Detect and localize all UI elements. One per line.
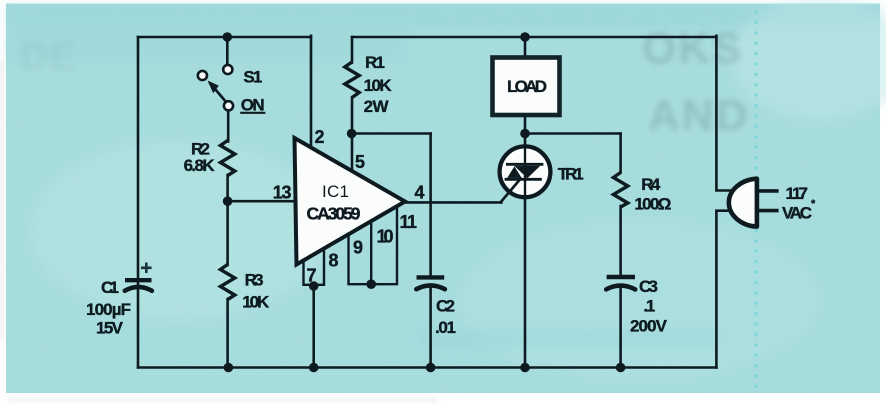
svg-text:9: 9 — [353, 238, 363, 258]
wire pin 13 horizontal — [228, 200, 296, 203]
svg-text:R3: R3 — [245, 271, 264, 290]
wire load bottom to triac — [524, 115, 527, 149]
resistor R2 — [220, 141, 234, 176]
junction node: bus / triac — [520, 363, 530, 373]
svg-text:LOAD: LOAD — [507, 77, 547, 96]
svg-text:5: 5 — [355, 152, 365, 172]
wire load top stub — [524, 37, 527, 58]
resistor R3 — [220, 265, 234, 300]
svg-text:CA3059: CA3059 — [307, 204, 361, 224]
op-amp U1 IC1 CA3059 body — [295, 138, 406, 265]
wire pin 2 vertical drop — [310, 36, 313, 147]
junction node: bus / R3 — [224, 363, 234, 373]
wire R3 to bus — [226, 299, 229, 368]
svg-text:TR1: TR1 — [558, 165, 584, 184]
svg-text:4: 4 — [415, 183, 425, 203]
LOAD box — [493, 58, 560, 116]
wire pin 7-8 drop to bus — [312, 286, 315, 368]
svg-text:8: 8 — [329, 251, 339, 271]
svg-text:2W: 2W — [364, 97, 390, 116]
junction node: R1 bottom branch — [347, 129, 357, 139]
svg-text:7: 7 — [799, 184, 808, 203]
resistor R4 — [613, 173, 627, 208]
svg-text:6.8K: 6.8K — [184, 156, 216, 175]
junction node: top rail / S1 — [223, 32, 233, 42]
svg-text:.1: .1 — [643, 297, 655, 316]
svg-text:1: 1 — [407, 212, 417, 232]
wire C2 column upper — [429, 134, 432, 277]
svg-text:C1: C1 — [101, 278, 119, 297]
svg-text:S1: S1 — [243, 68, 262, 87]
wire pin 4 output — [403, 201, 502, 204]
svg-text:OKS: OKS — [642, 24, 743, 73]
wire top-right horizontal rail — [352, 36, 716, 39]
wire right vertical upper + stub to plug — [716, 36, 733, 191]
svg-text:100Ω: 100Ω — [634, 195, 671, 214]
transistor Q1 triac TR1 — [500, 146, 551, 197]
svg-text:VAC: VAC — [782, 204, 812, 223]
wire triac gate diagonal — [501, 178, 522, 203]
svg-text:AND: AND — [648, 91, 749, 140]
wire C2 column lower to bus — [429, 289, 432, 368]
wire C3 lower to bus — [619, 289, 622, 368]
ghost show-through headline text — [20, 24, 749, 140]
junction node: LOAD bottom branch — [520, 129, 530, 139]
svg-text:ON: ON — [241, 96, 265, 115]
margin scan smudges — [1, 60, 438, 401]
wire R4 bottom to C3 — [619, 206, 622, 276]
svg-text:2: 2 — [315, 127, 325, 147]
pin 9-10-11 bracket — [349, 206, 398, 284]
svg-text:10K: 10K — [364, 76, 393, 95]
wire left vertical rail — [137, 37, 140, 368]
svg-text:C2: C2 — [436, 297, 455, 316]
wire triac anode bottom to bus — [524, 196, 527, 368]
svg-text:R4: R4 — [641, 175, 661, 194]
wire branch triac-node to R4 column — [525, 132, 621, 135]
wire S1 to R2 — [227, 111, 230, 142]
junction node: pins 9-10-11 bracket — [366, 279, 376, 289]
svg-text:IC1: IC1 — [322, 182, 349, 201]
capacitor C2 — [416, 277, 445, 289]
AC plug P1 — [729, 179, 779, 227]
junction node: top rail / LOAD — [520, 32, 530, 42]
svg-text:*: * — [811, 198, 816, 210]
wire S1 top stub — [226, 37, 229, 65]
wire bottom ground bus — [138, 366, 716, 369]
svg-text:200V: 200V — [630, 317, 668, 336]
wire top-left horizontal (node A top rail left) — [138, 36, 311, 39]
resistor R1 — [345, 62, 359, 98]
junction node: bus / C3 — [616, 363, 626, 373]
svg-text:DE: DE — [20, 35, 76, 79]
dotted column separator — [755, 10, 758, 388]
capacitor C1 (electrolytic) — [125, 263, 152, 291]
wire right vertical lower + stub to plug — [716, 211, 733, 368]
wire R1 top stub — [351, 37, 354, 63]
junction node: pin 13 tap — [223, 196, 233, 206]
svg-text:R1: R1 — [365, 53, 385, 72]
junction node: bus / C2 — [426, 363, 436, 373]
capacitor C3 — [606, 277, 635, 289]
svg-text:15V: 15V — [96, 319, 124, 338]
svg-text:100µF: 100µF — [86, 300, 131, 319]
junction node: bus / pin7 — [309, 363, 319, 373]
wire R2 bottom to node 13 to R3 — [226, 175, 229, 265]
svg-text:10K: 10K — [242, 293, 270, 312]
svg-text:0: 0 — [384, 227, 394, 247]
svg-text:C3: C3 — [639, 277, 658, 296]
wire R1 bottom to pin 5 — [351, 98, 354, 171]
wire branch pin5-node to C2 column — [352, 132, 431, 135]
svg-text:.01: .01 — [435, 318, 456, 337]
wire R4 column upper — [619, 134, 622, 173]
switch S1 — [198, 65, 233, 111]
junction node: pins 7-8 bracket — [309, 281, 319, 291]
svg-text:3: 3 — [282, 183, 292, 203]
pin 7-8 bracket — [304, 249, 325, 285]
